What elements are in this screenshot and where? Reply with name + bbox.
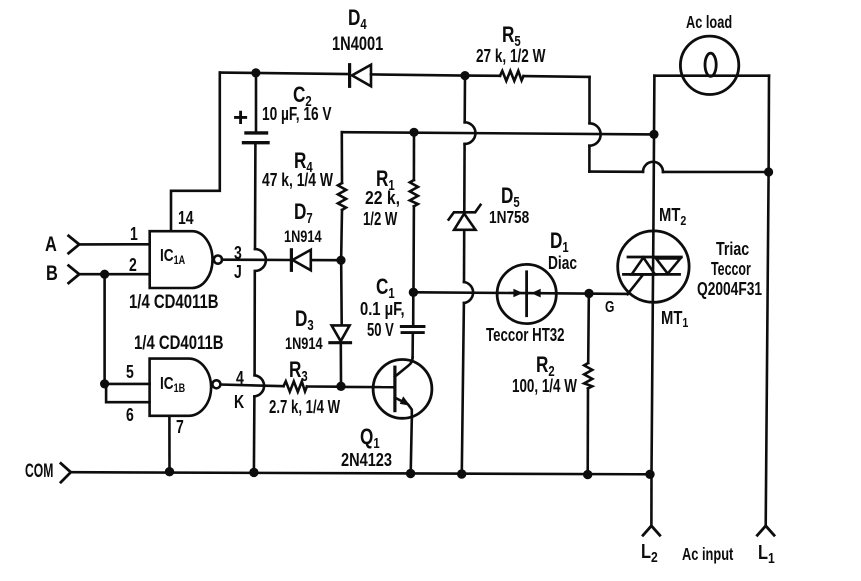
label D5 value 1N758 <box>489 209 529 227</box>
zener diode D5 <box>449 205 481 230</box>
node L2 COM <box>645 470 654 479</box>
label Ac input <box>682 546 733 564</box>
wire L2 lead <box>650 474 653 526</box>
label R5 value <box>476 47 545 66</box>
node D4 R5 D5 <box>460 71 469 80</box>
label C1 <box>376 276 395 298</box>
node C2 top <box>251 68 260 77</box>
wire B node to IC1B <box>103 274 106 384</box>
wire R5 drop with hop <box>589 77 600 172</box>
label pin 1 <box>130 225 138 243</box>
label Teccor <box>711 260 751 278</box>
wire D7 to node <box>311 259 337 262</box>
wire mid rail R4-top to MT2 node <box>342 132 654 134</box>
wire R5-to-corner segment <box>524 75 590 78</box>
label D5 <box>501 185 520 207</box>
wire node down to D3 <box>340 264 343 325</box>
label Q1 <box>360 426 380 448</box>
input B chevron <box>69 266 80 283</box>
wire diac rail <box>418 292 628 294</box>
label IC1A <box>160 247 185 265</box>
label R4 <box>294 150 313 172</box>
label R3 value <box>269 398 340 417</box>
NAND gate IC1B <box>150 359 221 416</box>
resistor R1 <box>410 132 418 288</box>
wire C2 to COM with hops over J and K <box>254 144 266 472</box>
terminal L2 arrow <box>643 526 660 536</box>
wire zener column top <box>464 76 475 211</box>
label Ac load <box>686 14 732 32</box>
capacitor C2 <box>244 74 269 143</box>
label D4 <box>348 7 367 29</box>
label C2 <box>293 84 312 106</box>
label D7 value 1N914 <box>284 228 322 245</box>
node MT2 rail <box>649 130 658 139</box>
label D1 Diac <box>548 254 577 273</box>
NAND gate IC1A <box>150 231 222 288</box>
wire collector to C1 <box>411 334 414 357</box>
wire COM rail <box>71 472 650 474</box>
label pin 6 <box>126 406 134 424</box>
node IC1B input <box>100 379 109 388</box>
label R5 <box>502 24 521 46</box>
label R1 value line1 <box>365 189 400 208</box>
wire R2 to COM <box>586 388 589 474</box>
wire L1 column <box>766 76 769 526</box>
label R2 value <box>512 377 577 395</box>
label node J <box>234 263 242 281</box>
node C1 top <box>409 288 418 297</box>
label input COM <box>25 462 53 481</box>
label pin 2 <box>129 256 137 274</box>
label pin 3 <box>234 244 242 262</box>
label MT1 <box>661 309 688 328</box>
label D7 <box>294 201 313 223</box>
wire pin 1 <box>79 243 150 246</box>
label terminal L2 <box>641 542 658 562</box>
wire pin 7 to COM <box>168 416 171 472</box>
diode D7 <box>291 250 310 270</box>
label input B <box>46 263 58 284</box>
wire lamp rail <box>654 74 769 77</box>
resistor R2 <box>584 363 592 388</box>
node pin7 COM <box>165 467 174 476</box>
label R2 <box>536 354 555 376</box>
label R4 value <box>262 171 333 190</box>
node B input <box>100 270 109 279</box>
triac Q2004F31 <box>618 231 689 302</box>
resistor R4 <box>338 132 346 256</box>
label pin 7 <box>176 418 184 436</box>
wire R3 to node <box>307 385 337 388</box>
label MT2 <box>659 206 686 225</box>
label diac type Teccor HT32 <box>486 326 565 345</box>
label R3 <box>289 359 308 381</box>
wire MT2 column <box>653 76 654 231</box>
wire node-to-R5 segment <box>465 74 500 77</box>
node diac gate <box>584 289 593 298</box>
label D3 <box>295 308 314 330</box>
resistor R5 <box>500 71 524 81</box>
label gate G <box>605 300 614 316</box>
label C2 plus <box>233 104 248 130</box>
node C2 COM <box>249 468 258 477</box>
terminal L1 arrow <box>757 526 774 536</box>
diode D3 <box>330 325 351 382</box>
label node K <box>234 393 244 411</box>
label C1 value line1 <box>360 300 405 318</box>
wire gate row with hop over MT2 line <box>589 162 768 172</box>
label D4 value 1N4001 <box>332 35 383 54</box>
node emitter COM <box>406 469 415 478</box>
node R1 top <box>409 128 418 137</box>
node R2 COM <box>583 470 592 479</box>
label IC1A type <box>129 293 219 313</box>
label Q2004F31 <box>697 280 762 298</box>
node gate row L1 <box>764 167 773 176</box>
wire MT1 to COM <box>652 302 653 474</box>
diac D1 <box>497 264 556 323</box>
wire base <box>345 386 395 389</box>
label D3 value 1N914 <box>285 335 323 352</box>
label Triac <box>716 240 749 258</box>
wire top rail left segment <box>220 73 348 74</box>
wire J output pin 3 <box>222 258 290 261</box>
node R3 D3 base <box>336 382 345 391</box>
label pin 4 <box>236 369 244 387</box>
lamp Ac load <box>680 36 738 94</box>
input COM chevron <box>61 463 71 482</box>
label R1 <box>376 168 395 190</box>
input A chevron <box>69 236 80 253</box>
node zener COM <box>457 469 466 478</box>
label D1 <box>550 230 569 252</box>
label pin 14 <box>178 209 194 227</box>
wire zener column bottom with hop <box>462 230 473 473</box>
label R1 value line2 <box>363 210 397 229</box>
resistor R3 <box>284 381 307 392</box>
label input A <box>45 234 57 255</box>
transistor Q1 <box>373 357 432 418</box>
node D7 anode <box>336 256 345 265</box>
wire emitter to COM <box>411 418 412 473</box>
label C2 value <box>262 105 332 124</box>
label pin 5 <box>126 363 134 381</box>
wire diac node to R2 <box>587 298 590 363</box>
label terminal L1 <box>758 543 775 563</box>
wire pin 6 loop <box>106 384 150 402</box>
wire pin 2 <box>79 273 150 276</box>
label Q1 value 2N4123 <box>341 451 392 470</box>
wire pin14 riser <box>171 73 220 232</box>
wire top rail D4-to-node segment <box>371 74 463 75</box>
label IC1B <box>160 375 185 393</box>
capacitor C1 <box>401 297 424 333</box>
label IC1B type <box>134 334 224 354</box>
wire pin 5 <box>105 383 150 386</box>
diode D4 <box>350 65 371 87</box>
wire K output pin 4 <box>220 385 283 387</box>
label C1 value line2 <box>367 321 394 340</box>
